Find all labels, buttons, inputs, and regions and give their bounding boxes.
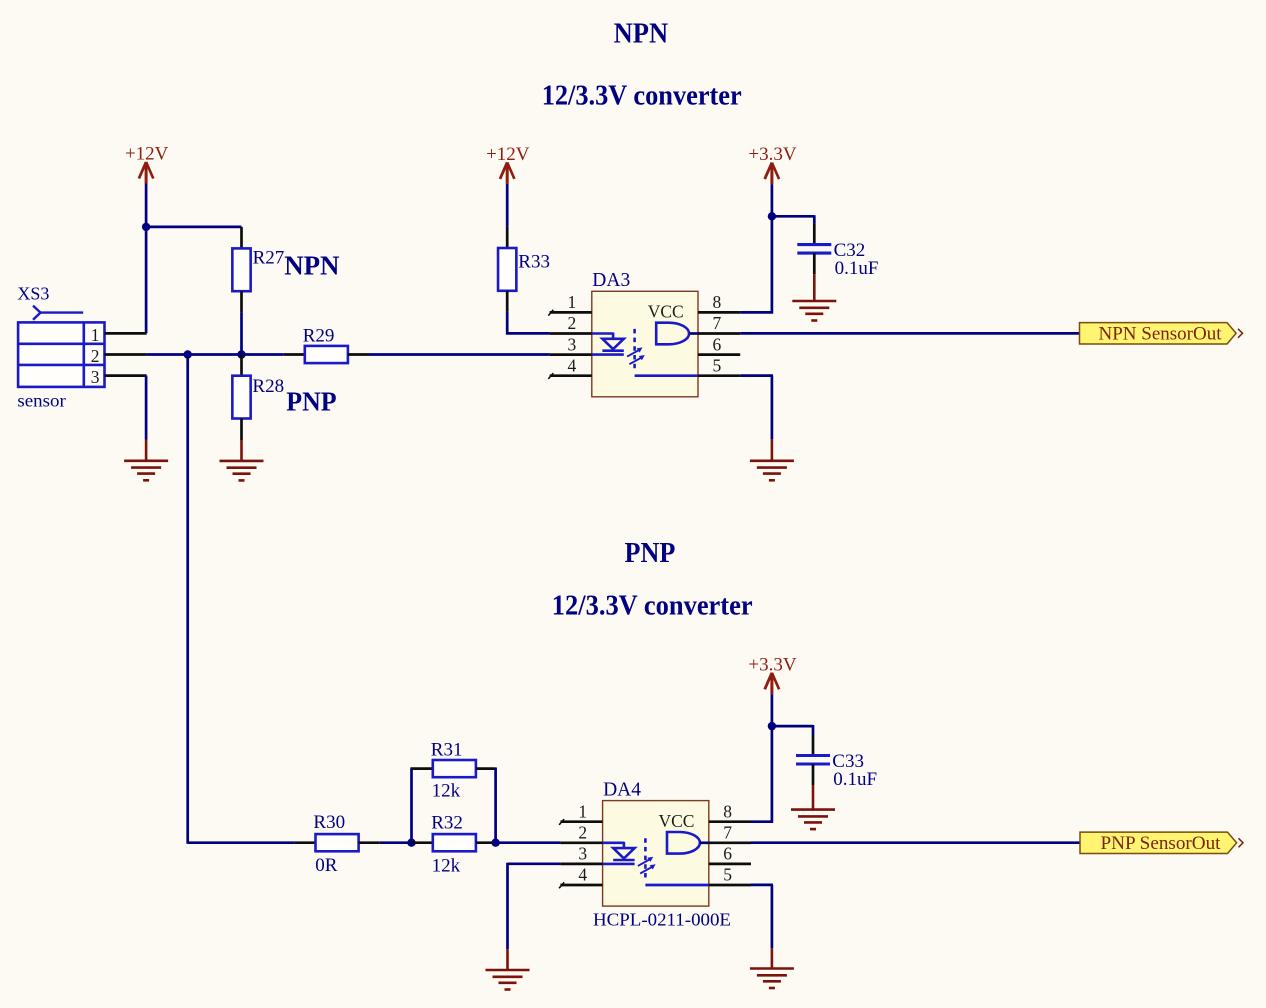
resistor R29 [303, 325, 348, 363]
DA4 pin 8 [709, 801, 751, 821]
svg-text:2: 2 [578, 823, 587, 843]
DA3 internal LED [592, 333, 624, 355]
svg-text:2: 2 [91, 346, 100, 366]
DA3 isolation barrier [633, 329, 636, 372]
R33 top pin [506, 227, 509, 248]
svg-text:PNP SensorOut: PNP SensorOut [1101, 834, 1222, 854]
svg-text:4: 4 [568, 355, 577, 375]
svg-text:PNP: PNP [625, 537, 676, 569]
wire DA4 pin5 to ground [751, 885, 773, 948]
DA3 pin 6 [698, 334, 740, 354]
R29 right pin [348, 353, 369, 356]
DA4 pin 6 [709, 844, 751, 864]
svg-text:NPN SensorOut: NPN SensorOut [1099, 325, 1223, 345]
R31 left pin [410, 767, 432, 770]
XS3 pin 2 stub [105, 353, 147, 356]
wire R33 to DA3 pin2 [506, 312, 549, 335]
C33 ground stub [812, 785, 815, 810]
svg-text:PNP: PNP [286, 386, 336, 416]
wire +12V to R33 [506, 184, 509, 227]
svg-text:DA4: DA4 [603, 779, 641, 800]
connector XS3 [17, 284, 104, 411]
wire DA3 pin7 to NPN SensorOut [740, 332, 1079, 335]
svg-text:2: 2 [568, 313, 577, 333]
capacitor C33 [796, 735, 877, 790]
DA3 internal wire to pin 5 [635, 374, 698, 377]
DA4 internal LED [603, 842, 635, 864]
power +12V (1) [125, 144, 169, 184]
wire main node (XS3 pin2 to R29) [147, 353, 284, 356]
svg-text:7: 7 [723, 823, 732, 843]
R28 top pin [240, 355, 243, 376]
ground GND6 [750, 948, 794, 988]
resistor R27 [232, 248, 284, 292]
svg-text:6: 6 [713, 334, 722, 354]
resistor R32 [431, 813, 476, 877]
wire DA4 pin7 to PNP SensorOut [751, 841, 1080, 844]
svg-text:R29: R29 [303, 325, 335, 346]
svg-text:1: 1 [568, 292, 577, 312]
svg-text:4: 4 [578, 865, 587, 885]
svg-text:+12V: +12V [486, 144, 530, 165]
wire junction E up to R31 [410, 769, 413, 843]
DA3 pin 7 [698, 313, 740, 333]
power +3.3V (1) [748, 144, 796, 184]
DA3 light arrows [627, 347, 645, 364]
svg-text:R27: R27 [253, 248, 285, 269]
svg-text:XS3: XS3 [17, 284, 49, 304]
R30 left pin [294, 841, 315, 844]
R32 right pin [476, 841, 496, 844]
DA4 pin 3 [560, 844, 602, 864]
svg-text:12/3.3V converter: 12/3.3V converter [542, 79, 742, 111]
port flag PNP SensorOut [1080, 832, 1243, 854]
junction A [142, 223, 150, 231]
R31 right pin [476, 767, 496, 770]
wire +3.3V to DA3 pin8 [740, 184, 773, 313]
svg-text:R32: R32 [431, 813, 463, 834]
R27 bottom pin [240, 291, 243, 312]
DA4 pin 7 [709, 823, 751, 843]
DA3 pin 8 [698, 292, 740, 312]
wire junction D to C32 [772, 215, 814, 224]
svg-text:+12V: +12V [125, 144, 169, 165]
resistor R33 [498, 248, 550, 291]
optocoupler DA4 body [593, 779, 731, 929]
junction D [768, 212, 776, 220]
power +3.3V (2) [748, 654, 796, 694]
resistor R28 [232, 376, 284, 419]
wire DA3 pin5 to ground [740, 376, 773, 440]
DA4 pin 2 [560, 823, 602, 843]
svg-text:7: 7 [713, 313, 722, 333]
svg-text:0.1uF: 0.1uF [835, 258, 879, 279]
svg-text:NPN: NPN [284, 251, 340, 281]
DA3 pin 2 [550, 313, 592, 333]
svg-text:sensor: sensor [17, 390, 66, 410]
svg-text:R30: R30 [313, 812, 345, 833]
DA3 pin 1 [548, 292, 592, 316]
R32 left pin [412, 841, 433, 844]
power +12V (2) [486, 144, 530, 184]
svg-text:12/3.3V converter: 12/3.3V converter [552, 589, 753, 621]
R27 top pin [240, 227, 243, 249]
ground GND1 [124, 440, 168, 481]
R30 right pin [359, 841, 380, 844]
svg-text:8: 8 [723, 801, 732, 821]
resistor R31 [431, 739, 476, 801]
wire DA4 pin3 to ground [508, 863, 561, 950]
wire R29 to DA3 pin3 [369, 353, 550, 356]
svg-text:8: 8 [713, 292, 722, 312]
DA3 pin 3 [550, 334, 592, 354]
svg-text:3: 3 [578, 844, 587, 864]
R29 left pin [284, 353, 305, 356]
capacitor C32 [797, 224, 878, 279]
junction F [491, 839, 499, 847]
DA3 pin 4 [548, 355, 592, 379]
DA4 pin 1 [559, 801, 603, 825]
wire R31 to junction F [494, 768, 497, 843]
svg-text:5: 5 [713, 355, 722, 375]
junction C [237, 350, 245, 358]
C32 ground stub [813, 274, 816, 301]
wire junction A to R27 [146, 226, 241, 229]
svg-text:0R: 0R [315, 855, 338, 876]
ground GND2 [220, 440, 264, 480]
svg-text:+3.3V: +3.3V [748, 654, 796, 675]
DA4 internal wire to pin 5 [645, 884, 708, 887]
svg-text:DA3: DA3 [592, 270, 630, 291]
optocoupler DA3 body [592, 270, 698, 397]
svg-text:0.1uF: 0.1uF [833, 769, 877, 790]
XS3 pin 3 stub [105, 374, 147, 377]
junction B [184, 350, 192, 358]
resistor R30 [313, 812, 358, 876]
DA4 pin 5 [709, 865, 751, 885]
svg-text:R31: R31 [431, 739, 463, 760]
ground GND4 [792, 301, 836, 321]
ground GND3 [750, 439, 794, 480]
svg-text:1: 1 [578, 801, 587, 821]
svg-text:5: 5 [723, 865, 732, 885]
svg-text:VCC: VCC [659, 811, 695, 831]
svg-text:1: 1 [91, 325, 100, 345]
port flag NPN SensorOut [1080, 323, 1243, 345]
R28 bottom pin [240, 419, 243, 441]
svg-text:R28: R28 [252, 376, 284, 397]
svg-text:3: 3 [568, 334, 577, 354]
wire junction G to C33 [772, 725, 813, 735]
wire junction F to DA4 pin2 [496, 841, 561, 844]
R33 bottom pin [506, 291, 509, 312]
svg-text:3: 3 [91, 367, 100, 387]
svg-text:12k: 12k [432, 781, 461, 802]
wire R30 to junction E [380, 841, 412, 844]
DA3 output gate [656, 323, 698, 345]
junction G [768, 722, 776, 730]
wire +12V to pin1 rail [145, 184, 148, 334]
DA3 pin 5 [698, 355, 740, 375]
junction E [407, 839, 415, 847]
DA4 output gate [667, 832, 709, 854]
svg-text:VCC: VCC [648, 302, 684, 322]
svg-text:HCPL-0211-000E: HCPL-0211-000E [593, 909, 731, 929]
svg-text:NPN: NPN [614, 18, 669, 50]
wire R27 to junction C [240, 312, 243, 354]
svg-text:12k: 12k [432, 855, 461, 876]
ground GND5 [486, 949, 530, 989]
DA4 pin 4 [559, 865, 603, 889]
svg-text:6: 6 [723, 844, 732, 864]
svg-text:+3.3V: +3.3V [748, 144, 796, 165]
DA4 isolation barrier [644, 838, 647, 881]
DA4 light arrows [638, 857, 656, 874]
wire +3.3V to DA4 pin8 [751, 694, 773, 823]
ground GND7 [791, 810, 835, 830]
wire XS3 pin3 to ground [145, 376, 148, 440]
XS3 pin 1 stub [105, 332, 147, 335]
svg-text:R33: R33 [518, 251, 550, 272]
wire node B down to R30 (PNP input) [188, 355, 295, 844]
